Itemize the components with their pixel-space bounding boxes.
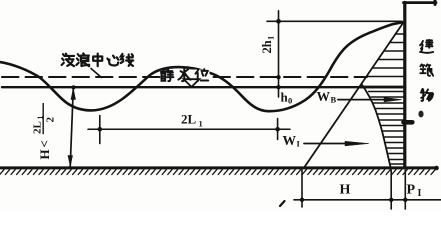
svg-text:<: < (37, 140, 52, 147)
svg-text:0: 0 (288, 96, 292, 106)
svg-text:B: B (331, 95, 337, 105)
svg-text:2h: 2h (260, 40, 274, 53)
svg-text:I: I (418, 188, 422, 199)
svg-text:H: H (340, 183, 351, 198)
svg-text:2L: 2L (181, 112, 197, 127)
svg-text:W: W (317, 89, 331, 104)
svg-text:2L: 2L (32, 121, 44, 134)
svg-text:W: W (283, 133, 297, 148)
svg-text:1: 1 (266, 36, 276, 40)
svg-text:2: 2 (45, 117, 57, 123)
svg-text:H: H (37, 149, 52, 159)
svg-text:I: I (297, 139, 301, 149)
svg-text:1: 1 (199, 119, 203, 129)
svg-text:P: P (407, 183, 416, 198)
